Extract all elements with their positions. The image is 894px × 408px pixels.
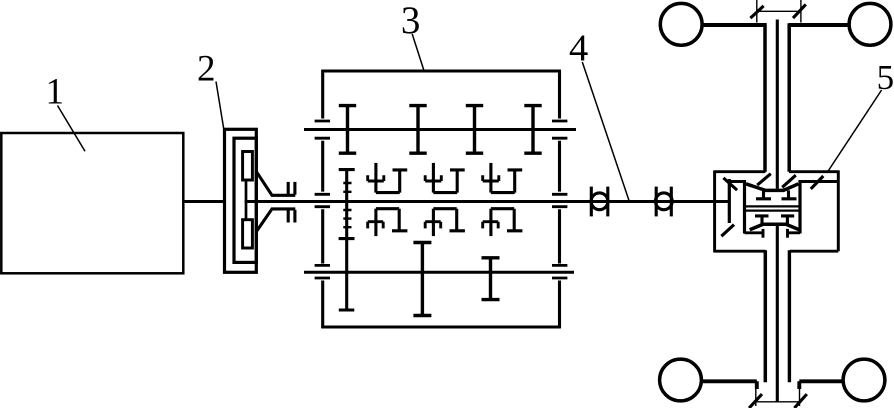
gearbox right wall segments: [558, 70, 561, 329]
leader line for label 1: [58, 106, 86, 152]
clutch disc stem upper: [245, 180, 248, 202]
svg-text:2: 2: [197, 48, 216, 89]
gearbox 3 housing top edge: [321, 70, 560, 73]
gear on upper shaft g4: [524, 106, 541, 154]
axle dimension extension lines top: [757, 0, 801, 23]
spline sliding joint marks lower: [287, 210, 290, 223]
leader line for label 4: [582, 62, 629, 201]
axle tube upper right line: [787, 23, 791, 172]
universal joint J1 right bar: [606, 187, 609, 217]
ring gear bevel tick top: [723, 178, 737, 190]
synchronizer gear set lower 3: [483, 209, 523, 236]
svg-text:1: 1: [46, 71, 65, 112]
bearing caps right wall top shaft: [552, 121, 567, 138]
axle break slash bottom right: [794, 394, 806, 408]
axle break slash top right: [793, 4, 806, 18]
universal joint J2 circle: [655, 193, 672, 210]
universal joint J2 left bar: [655, 187, 658, 217]
upper side bevel gear V: [746, 184, 799, 191]
clutch friction disc upper: [243, 152, 253, 181]
gearbox left wall segments: [321, 70, 324, 329]
gear on upper shaft g3: [466, 106, 483, 154]
axle center line upper: [776, 20, 779, 189]
gearbox upper countershaft: [304, 128, 576, 131]
wheel rear left: [660, 359, 702, 401]
gearbox lower countershaft: [304, 271, 574, 274]
leader line for label 5: [828, 90, 882, 172]
gear on upper shaft g1: [339, 106, 356, 154]
ring gear bevel tick bottom: [721, 225, 734, 237]
axle bevel tick upper left: [757, 174, 771, 185]
differential flange left: [729, 180, 746, 183]
synchronizer gear set upper 1: [368, 163, 408, 193]
half axle front right: [789, 23, 848, 27]
differential cage right wall: [798, 180, 801, 233]
axle break slash top left: [750, 6, 763, 18]
half axle rear right with stub: [799, 381, 843, 389]
differential cage bottom left: [745, 231, 764, 234]
final drive housing box: [715, 170, 839, 252]
half axle front left: [703, 23, 767, 27]
synchronizer gear set lower 1: [368, 209, 408, 236]
differential cage bottom right: [787, 231, 801, 234]
bevel tick top right: [811, 176, 824, 189]
upper side gear stems and caps: [756, 190, 797, 198]
differential spider shaft bars: [745, 206, 801, 210]
main shaft from clutch through gearbox to final drive: [245, 200, 729, 203]
svg-text:3: 3: [401, 0, 421, 42]
gearbox housing bottom edge: [321, 326, 560, 329]
axle dimension extension lines bottom: [756, 388, 800, 406]
axle center line lower: [776, 226, 779, 402]
engine block 1 (box): [1, 133, 183, 273]
gear on upper shaft g2: [409, 106, 426, 154]
synchronizer gear set upper 3: [483, 163, 523, 193]
axle tube upper left line: [763, 23, 767, 172]
clutch disc stem lower: [245, 201, 248, 220]
lower hub tick left: [762, 229, 765, 238]
wheel front right: [849, 3, 891, 45]
lower side bevel gear V: [750, 224, 800, 230]
clutch release fork upper: [257, 172, 296, 196]
axle bevel tick upper right: [782, 175, 796, 187]
bearing caps left wall counter shaft: [315, 265, 330, 278]
leader line for label 3: [412, 34, 424, 71]
drive pinion ring gear: [728, 179, 731, 223]
synchronizer gear set lower 2: [425, 209, 465, 236]
differential cage left wall: [743, 180, 746, 233]
bearing caps right wall main shaft: [552, 194, 567, 206]
wheel front left: [660, 3, 702, 45]
axle tube lower right line: [788, 250, 791, 382]
clutch friction disc lower: [243, 220, 253, 248]
half axle rear left with stub: [703, 381, 757, 389]
universal joint J1 circle: [591, 193, 608, 210]
universal joint J1 left bar: [590, 187, 593, 217]
clutch release fork lower: [257, 209, 296, 232]
splined input gear on main shaft: [339, 170, 355, 310]
lower hub tick right: [786, 229, 789, 238]
leader line for label 2: [216, 82, 224, 129]
wheel rear right: [843, 359, 885, 401]
svg-text:4: 4: [569, 27, 588, 69]
gear on lower shaft g7: [482, 258, 500, 300]
axle tube lower left line: [764, 250, 768, 382]
gear on lower shaft g6: [413, 243, 431, 316]
universal joint J2 right bar: [670, 187, 673, 217]
svg-text:5: 5: [877, 58, 894, 97]
spline ticks: [343, 183, 351, 227]
clutch inner plate frame: [234, 138, 256, 262]
spline sliding joint marks upper: [287, 182, 290, 195]
lower side gear caps and stems: [755, 216, 794, 224]
shaft segment engine to clutch: [183, 200, 225, 203]
clutch 2 outer housing: [225, 129, 257, 272]
differential flange right: [799, 180, 839, 183]
axle break slash bottom left: [749, 394, 762, 408]
bearing caps left wall top shaft: [315, 121, 330, 138]
bearing caps left wall main shaft: [315, 194, 330, 206]
synchronizer gear set upper 2: [425, 163, 465, 193]
bearing caps right wall counter shaft: [552, 265, 567, 278]
